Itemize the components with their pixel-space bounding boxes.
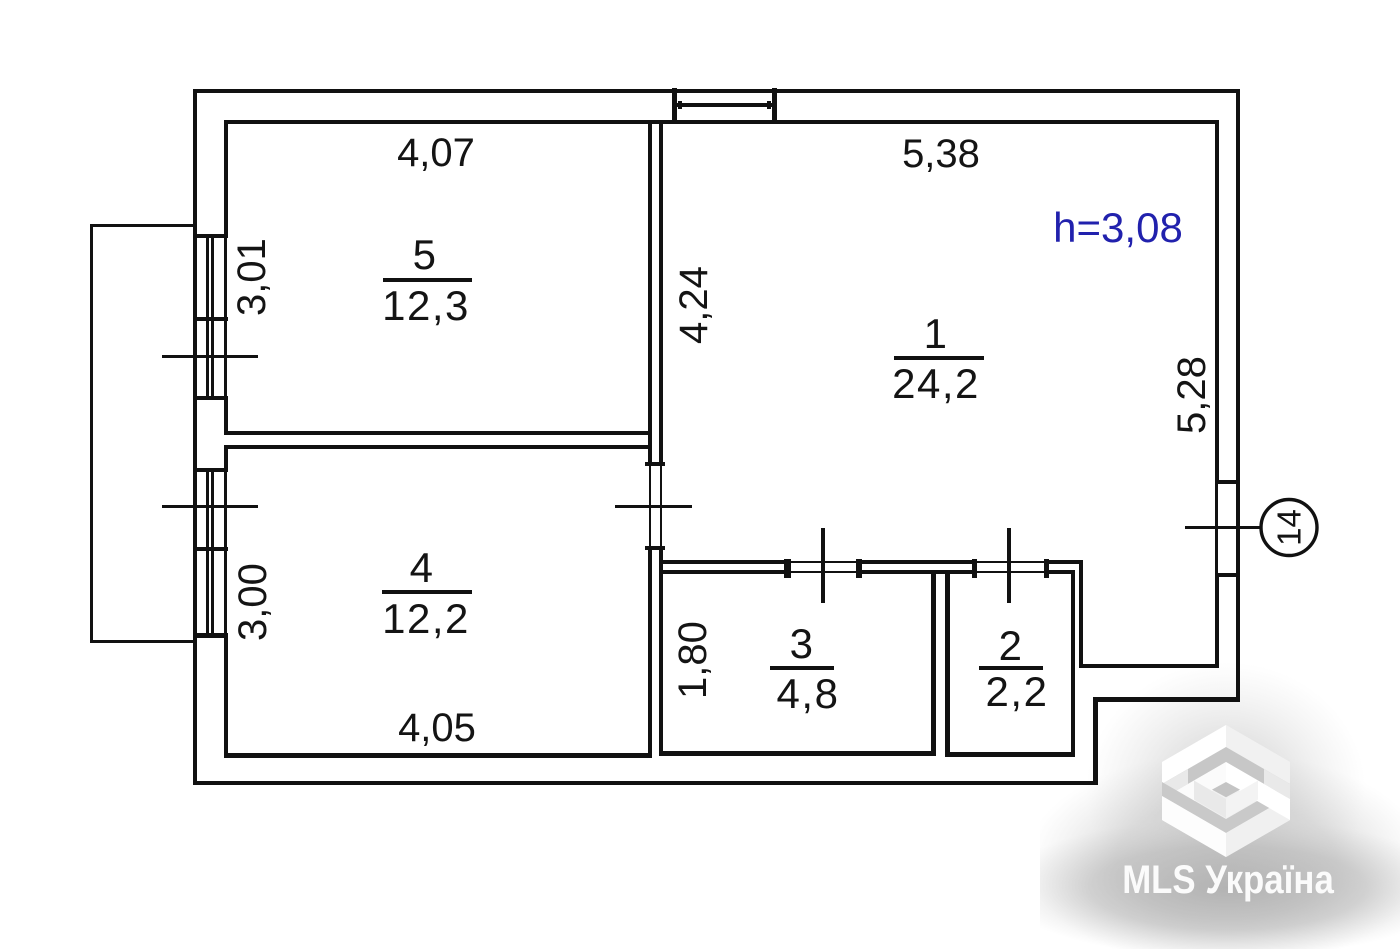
label room 3 area 4,8 xyxy=(708,674,908,714)
wall partition left line lower xyxy=(648,546,652,758)
wall room1 right upper xyxy=(1215,120,1219,480)
door 3 dimension tick xyxy=(821,528,825,603)
window A jamb top xyxy=(193,234,228,238)
label room 1 fraction line xyxy=(894,356,984,360)
wall room1 right lower xyxy=(1215,573,1219,668)
wall rooms3-2 top seg1 xyxy=(659,570,786,574)
svg-text:14: 14 xyxy=(1271,509,1308,546)
window A glass line 2 lower xyxy=(211,321,214,396)
wall room1 bottom seg2 xyxy=(858,560,975,564)
label room 2 number xyxy=(911,626,1111,666)
window B glass line 2 lower xyxy=(211,551,214,633)
label room 5 number xyxy=(325,235,525,275)
wall rooms3-2 top door3 thin xyxy=(786,571,858,574)
watermark text xyxy=(1122,857,1335,902)
label room 1 area 24,2 xyxy=(836,364,1036,404)
label room 5 fraction line xyxy=(383,278,472,282)
wall partition left line upper xyxy=(648,120,652,462)
wall room4 left upper xyxy=(224,445,228,472)
wire outer top wall xyxy=(193,89,1240,93)
central box faces xyxy=(1194,781,1226,819)
entrance jamb bottom xyxy=(1215,573,1240,577)
wall room1 bottom door2 thin xyxy=(975,561,1046,564)
wire outer step vertical xyxy=(1093,697,1098,785)
window A glass line 1 lower xyxy=(206,321,209,396)
label room 2 fraction line xyxy=(979,666,1043,670)
balcony bottom line xyxy=(90,640,196,643)
wall room1 bottom seg3 xyxy=(1046,560,1083,564)
door 2 jamb right xyxy=(1044,559,1049,578)
dimension h=3,08 blue xyxy=(1018,208,1218,248)
label room 5 area 12,3 xyxy=(326,286,526,326)
wire outer step horizontal xyxy=(1093,697,1240,702)
window B jamb middle xyxy=(193,547,228,551)
wall partition left line door thin xyxy=(649,462,652,546)
wire outer left wall xyxy=(193,89,197,785)
wall room3 right border xyxy=(931,570,936,756)
window A dimension cross line xyxy=(162,355,258,358)
window top end tick left xyxy=(678,101,682,109)
left half: chevrons up under, chevrons down over xyxy=(1162,725,1226,857)
door 3 jamb left xyxy=(784,559,791,578)
window top end tick right xyxy=(767,101,771,109)
window B dimension cross line xyxy=(162,505,258,508)
balcony left line xyxy=(90,224,93,643)
wall room5 bottom border xyxy=(224,431,651,435)
window B glass line 1 upper xyxy=(206,472,209,547)
wall room2 left border xyxy=(945,570,950,757)
wall rooms3-2 top seg2 xyxy=(858,570,975,574)
label room 2 area 2,2 xyxy=(917,672,1117,712)
entrance leader line xyxy=(1185,526,1261,529)
wall room5 left window thin xyxy=(224,238,227,396)
door 3 jamb right xyxy=(856,559,862,578)
label room 3 fraction line xyxy=(770,666,834,670)
label room 4 area 12,2 xyxy=(326,599,526,639)
wall rooms3-2 top door2 thin xyxy=(975,571,1046,574)
watermark shadow blob xyxy=(1026,752,1400,949)
dimension 4,05 xyxy=(337,708,537,748)
wall rooms3-2 top seg3 xyxy=(1046,570,1075,574)
wire outer bottom wall xyxy=(193,781,1098,785)
wall jog vertical right of room2 xyxy=(1079,560,1083,668)
svg-text:MLS Україна: MLS Україна xyxy=(1122,857,1335,902)
door 4-1 jamb top xyxy=(645,462,665,466)
door number circle 14 xyxy=(1258,496,1322,560)
dimension 3,00 rotated xyxy=(233,502,273,702)
wire inner top wall xyxy=(224,120,1219,124)
window top jamb left xyxy=(672,88,677,123)
wall room1 bottom door3 thin xyxy=(786,561,858,564)
window B glass line 2 upper xyxy=(211,472,214,547)
door 4-1 dimension cross line xyxy=(615,505,692,508)
dimension 5,38 xyxy=(841,134,1041,174)
window B jamb top xyxy=(193,468,228,472)
window A glass line 1 upper xyxy=(206,238,209,317)
dimension 4,07 xyxy=(336,133,536,173)
window A glass line 2 upper xyxy=(211,238,214,317)
label room 1 number xyxy=(836,314,1036,354)
central gray diamond xyxy=(1212,782,1240,797)
window A jamb bottom xyxy=(193,396,228,400)
wall room5 left upper xyxy=(224,120,228,238)
dimension 4,24 rotated xyxy=(674,205,714,405)
dimension 3,01 rotated xyxy=(232,177,272,377)
wall partition right line lower xyxy=(659,546,663,756)
label room 4 number xyxy=(322,548,522,588)
wall room4 top border xyxy=(224,445,651,449)
door 4-1 jamb bottom xyxy=(645,546,665,550)
dimension 1,80 rotated xyxy=(673,560,713,760)
window B jamb bottom xyxy=(193,633,228,638)
wire outer right wall xyxy=(1236,89,1240,702)
wall room2 right border xyxy=(1071,570,1075,757)
door 2 dimension tick xyxy=(1007,528,1011,603)
door 2 jamb left xyxy=(972,559,977,578)
balcony top line xyxy=(90,224,196,227)
wall room5 left lower xyxy=(224,396,228,435)
wall room4 left window thin xyxy=(224,472,227,633)
label room 3 number xyxy=(702,624,902,664)
window A jamb middle xyxy=(193,317,228,321)
wall room3 bottom border xyxy=(659,751,936,756)
window top middle line xyxy=(677,103,772,107)
right half: chevrons down under, chevrons up over xyxy=(1226,725,1290,857)
wall room1 right entrance thin xyxy=(1215,480,1218,573)
window B glass line 1 lower xyxy=(206,551,209,633)
wall room4 bottom border xyxy=(224,753,651,758)
wall jog horizontal xyxy=(1079,664,1219,668)
label room 4 fraction line xyxy=(382,590,472,594)
wall partition right line door thin xyxy=(660,462,663,546)
wall room4 left lower xyxy=(224,633,228,758)
window top jamb right xyxy=(772,88,777,123)
dimension 5,28 rotated xyxy=(1172,295,1212,495)
wall partition right line upper xyxy=(659,120,663,462)
wall room2 bottom border xyxy=(945,752,1075,757)
wall room1 bottom seg1 xyxy=(659,560,786,564)
logo hexagon xyxy=(1162,725,1290,857)
entrance jamb top xyxy=(1215,480,1240,484)
